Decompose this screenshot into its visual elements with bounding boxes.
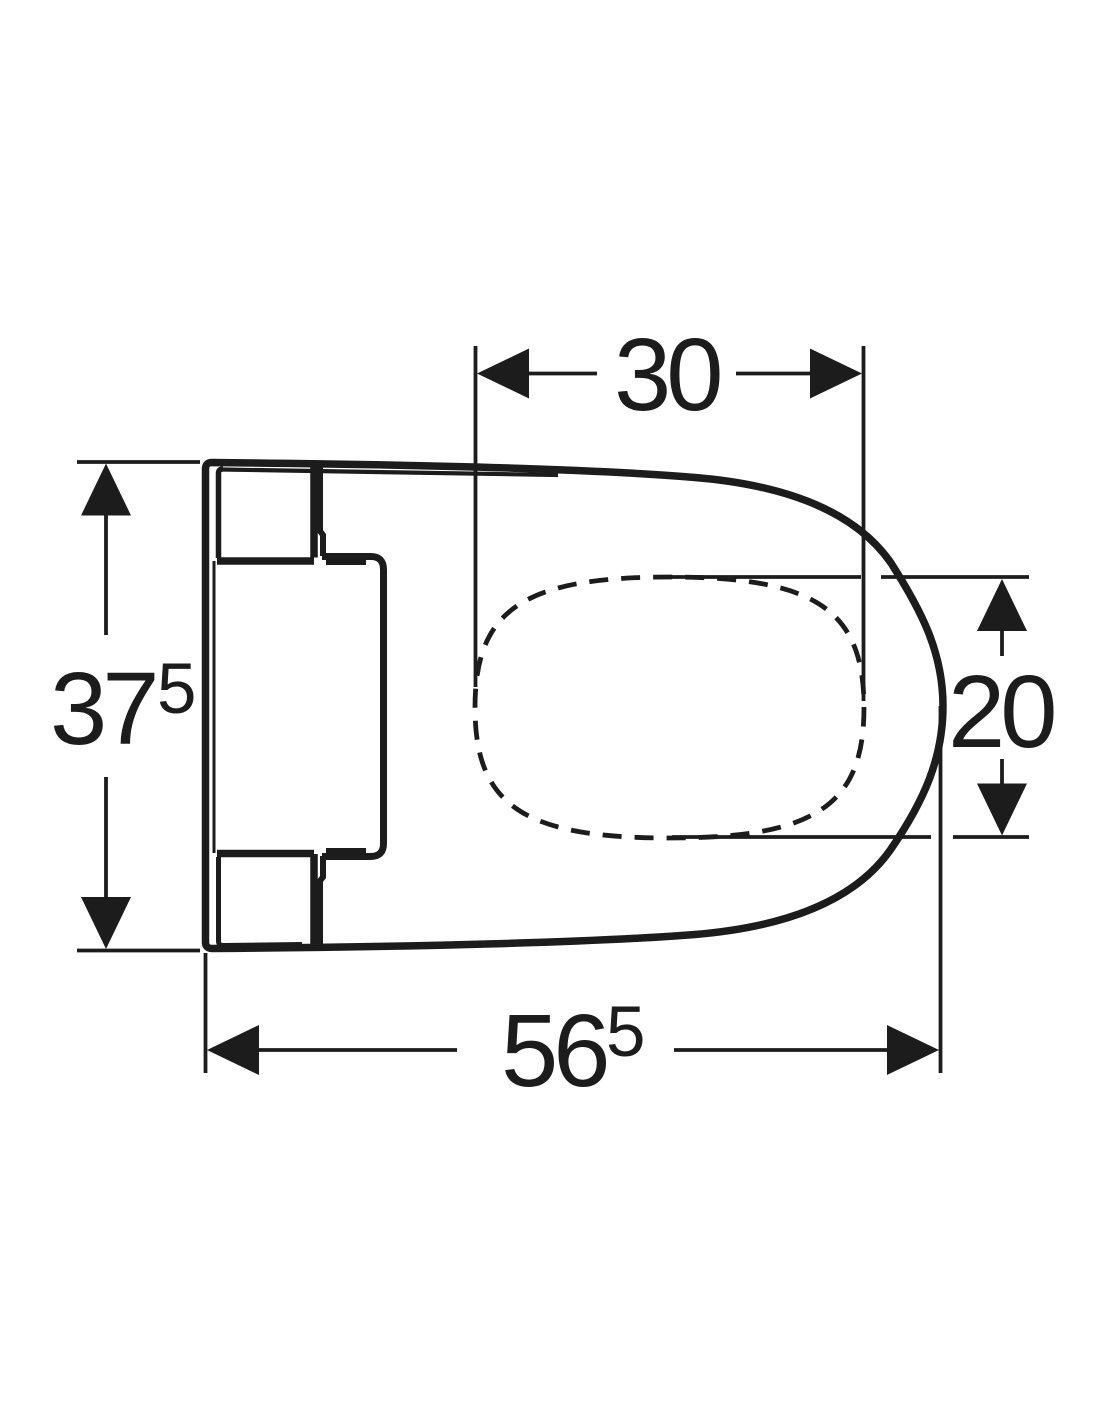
body outline — [206, 463, 944, 949]
svg-text:20: 20 — [948, 654, 1054, 769]
extension line 30 left — [474, 346, 478, 687]
extension line 30 right — [862, 346, 866, 701]
seam line bottom left — [310, 854, 318, 948]
inner offset line top-left vertical — [219, 469, 224, 558]
inner cover bottom-left edge — [217, 850, 314, 858]
extension line 20 top left part — [666, 575, 861, 579]
dimension line 30 left tail — [528, 372, 597, 376]
dimension line 20 lower tail — [1000, 759, 1004, 784]
arrowhead 20 down — [977, 784, 1027, 836]
seam line top left — [310, 465, 318, 558]
svg-text:5: 5 — [606, 993, 643, 1072]
dimension line 37 upper tail — [104, 514, 108, 635]
inner band line bottom — [326, 848, 366, 854]
extension line 37 bottom — [77, 949, 200, 953]
arrowhead 30 left — [477, 349, 529, 399]
dimension line 56 right tail — [674, 1048, 888, 1052]
extension line 56 left — [204, 953, 208, 1073]
extension line 37 top — [77, 460, 200, 464]
arrowhead 37 up — [81, 464, 131, 516]
arrowhead 56 right — [887, 1025, 939, 1075]
inner band line top — [326, 559, 366, 565]
extension line 20 top right part — [881, 575, 1029, 579]
inner cover top-left edge — [217, 557, 314, 565]
svg-text:5: 5 — [157, 650, 194, 729]
wall inner thin line (inner rect left edge) — [213, 561, 216, 853]
bowl dashed oval — [475, 577, 864, 838]
dimension line 56 left tail — [258, 1048, 457, 1052]
arrowhead 56 left — [207, 1025, 259, 1075]
seam line top right with jog — [320, 465, 323, 557]
extension line 20 bottom right part — [953, 835, 1029, 839]
seam line bottom right with jog — [320, 856, 323, 948]
arrowhead 30 right — [810, 349, 862, 399]
inner cover rounded right part — [322, 557, 384, 857]
svg-text:30: 30 — [614, 317, 720, 432]
inner offset line bottom-left vertical — [219, 857, 303, 946]
arrowhead 37 down — [81, 897, 131, 949]
inner offset line top horizontal — [222, 470, 558, 476]
dimension line 30 right tail — [736, 372, 810, 376]
svg-text:56: 56 — [501, 993, 606, 1108]
dimension line 37 lower tail — [104, 777, 108, 899]
arrowhead 20 up — [977, 579, 1027, 631]
extension line 20 bottom left part — [672, 835, 931, 839]
extension line 56 right — [939, 706, 943, 1073]
svg-text:37: 37 — [50, 651, 155, 766]
dimension line 20 upper tail — [1000, 630, 1004, 656]
